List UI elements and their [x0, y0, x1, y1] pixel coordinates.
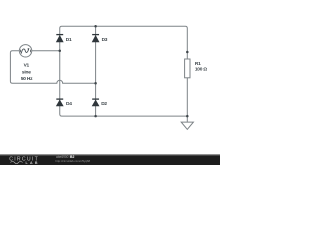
- diode D4: [56, 99, 64, 106]
- svg-text:B2: B2: [70, 155, 74, 159]
- node: V1- to leg2 junction: [94, 82, 97, 85]
- node: resistor top terminal: [186, 51, 189, 54]
- diode D2: [92, 99, 100, 106]
- wire: bridge leg 2 (D3/D2 vertical): [95, 26, 97, 116]
- diode D1: [56, 35, 64, 43]
- wire: V1 left lead, down and along bottom with hop over leg 1: [10, 51, 95, 83]
- node: V1+ to leg1 junction: [59, 50, 62, 53]
- svg-text:D3: D3: [102, 37, 108, 43]
- node: bottom rail / ground junction: [186, 115, 189, 118]
- svg-text:sine: sine: [22, 70, 31, 76]
- svg-text:R1: R1: [195, 61, 201, 67]
- wire: top rail, left leg (bridge leg 1), bottom rail: [60, 26, 188, 116]
- svg-text:50 Hz: 50 Hz: [21, 76, 33, 82]
- ground: [181, 122, 193, 129]
- watermark logo wave + LAB: [11, 161, 23, 163]
- node: top rail / leg2 junction: [94, 25, 97, 28]
- wire: right vertical below resistor down to ground stub: [186, 78, 188, 122]
- watermark bar: [0, 156, 220, 165]
- voltage source V1: [19, 45, 31, 57]
- svg-text:http://circuitlab.com/c/5yq68: http://circuitlab.com/c/5yq68: [56, 159, 91, 163]
- svg-text:abe6900 :: abe6900 :: [56, 155, 70, 159]
- diode D3: [92, 35, 100, 43]
- node: bottom rail / leg2 junction: [94, 115, 97, 118]
- wire: V1 right lead to node: [31, 50, 60, 52]
- svg-text:V1: V1: [24, 63, 30, 69]
- svg-text:100 Ω: 100 Ω: [195, 67, 207, 73]
- svg-text:LAB: LAB: [26, 161, 38, 165]
- resistor R1: [185, 59, 190, 78]
- svg-text:D4: D4: [66, 101, 72, 107]
- svg-text:D1: D1: [66, 37, 72, 43]
- svg-text:D2: D2: [101, 101, 107, 107]
